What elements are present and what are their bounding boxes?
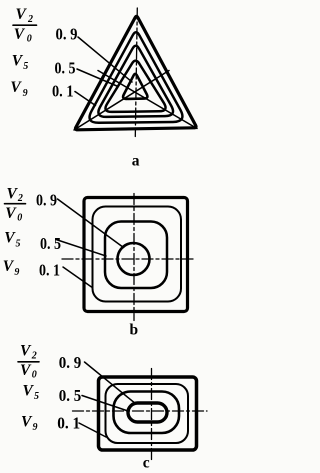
fraction bar (c)	[18, 361, 39, 363]
svg-text:0. 9: 0. 9	[56, 25, 78, 44]
leader 0.5 (b)	[56, 240, 106, 257]
svg-text:b: b	[130, 321, 139, 338]
svg-text:0: 0	[17, 213, 22, 224]
median from bottom-right vertex (a)	[98, 71, 197, 129]
svg-text:V: V	[3, 258, 15, 275]
label V2/V0 fraction (c)	[20, 342, 37, 380]
leader 0.1 (b)	[63, 267, 92, 287]
contour 0.9 circle (b)	[118, 243, 150, 275]
svg-text:0: 0	[27, 34, 32, 45]
vertical centerline (a)	[135, 8, 137, 137]
fraction bar (b)	[5, 203, 26, 205]
label V9 (b)	[3, 258, 20, 278]
svg-text:5: 5	[34, 391, 39, 402]
svg-text:0. 1: 0. 1	[52, 82, 74, 101]
label V5 (a)	[12, 53, 28, 72]
svg-text:9: 9	[33, 422, 38, 433]
horizontal centerline (c)	[73, 410, 208, 412]
contour 0.5 rect (c)	[114, 392, 180, 434]
label V5 (b)	[4, 230, 20, 250]
svg-text:V: V	[10, 79, 22, 96]
svg-text:0. 9: 0. 9	[36, 191, 57, 210]
svg-text:0. 5: 0. 5	[59, 386, 82, 405]
vertical centerline (c)	[151, 369, 153, 460]
svg-text:V: V	[23, 383, 35, 400]
svg-text:0. 5: 0. 5	[55, 59, 76, 78]
svg-text:V: V	[4, 230, 16, 247]
svg-text:2: 2	[17, 193, 23, 204]
svg-text:V: V	[16, 6, 28, 23]
contour 0.5 triangle (a)	[98, 46, 173, 117]
svg-text:5: 5	[16, 239, 21, 250]
svg-text:0: 0	[32, 370, 37, 381]
svg-text:0. 9: 0. 9	[59, 353, 82, 372]
contour 0.9 stadium (c)	[128, 403, 167, 422]
contour 0.1 triangle (a)	[90, 32, 183, 123]
svg-text:2: 2	[27, 14, 33, 25]
svg-text:0. 5: 0. 5	[40, 234, 61, 253]
svg-text:c: c	[143, 455, 150, 472]
leader 0.9 (c)	[85, 362, 137, 404]
contour 0.7 triangle (a)	[105, 61, 165, 112]
label V2/V0 fraction (a)	[14, 6, 33, 45]
contour 0.1 rect (c)	[106, 384, 189, 443]
svg-text:a: a	[132, 153, 140, 170]
label V5 (c)	[23, 383, 40, 402]
svg-text:V: V	[20, 342, 32, 359]
boundary square (b)	[84, 198, 188, 312]
leader 0.9 (b)	[58, 199, 124, 248]
contour 0.1 square (b)	[93, 207, 182, 302]
svg-text:V: V	[20, 362, 32, 379]
leader 0.9 (a)	[78, 37, 132, 82]
fraction bar (a)	[13, 24, 37, 26]
svg-text:2: 2	[31, 350, 37, 361]
svg-text:9: 9	[23, 88, 28, 99]
svg-text:0. 1: 0. 1	[39, 260, 60, 279]
leader 0.1 (a)	[75, 92, 96, 106]
svg-text:V: V	[7, 185, 19, 202]
boundary rectangle (c)	[99, 377, 197, 450]
contour 0.9 inner triangle (a)	[123, 74, 147, 99]
contour 0.5 square (b)	[105, 222, 167, 289]
svg-text:V: V	[5, 205, 17, 222]
svg-text:0. 1: 0. 1	[57, 414, 80, 433]
svg-text:9: 9	[14, 267, 19, 278]
svg-text:V: V	[14, 26, 26, 43]
horizontal centerline (b)	[62, 258, 196, 260]
boundary triangle (a)	[75, 16, 196, 130]
vertical centerline (b)	[133, 194, 135, 321]
svg-text:5: 5	[23, 61, 28, 72]
median from bottom-left vertex (a)	[74, 71, 169, 131]
label V9 (a)	[10, 79, 27, 99]
svg-text:V: V	[21, 414, 33, 431]
leader 0.5 (a)	[77, 69, 118, 87]
svg-text:V: V	[12, 53, 24, 70]
label V9 (c)	[21, 414, 38, 433]
leader 0.1 (c)	[79, 423, 106, 437]
label V2/V0 fraction (b)	[5, 185, 23, 223]
leader 0.5 (c)	[82, 396, 127, 411]
